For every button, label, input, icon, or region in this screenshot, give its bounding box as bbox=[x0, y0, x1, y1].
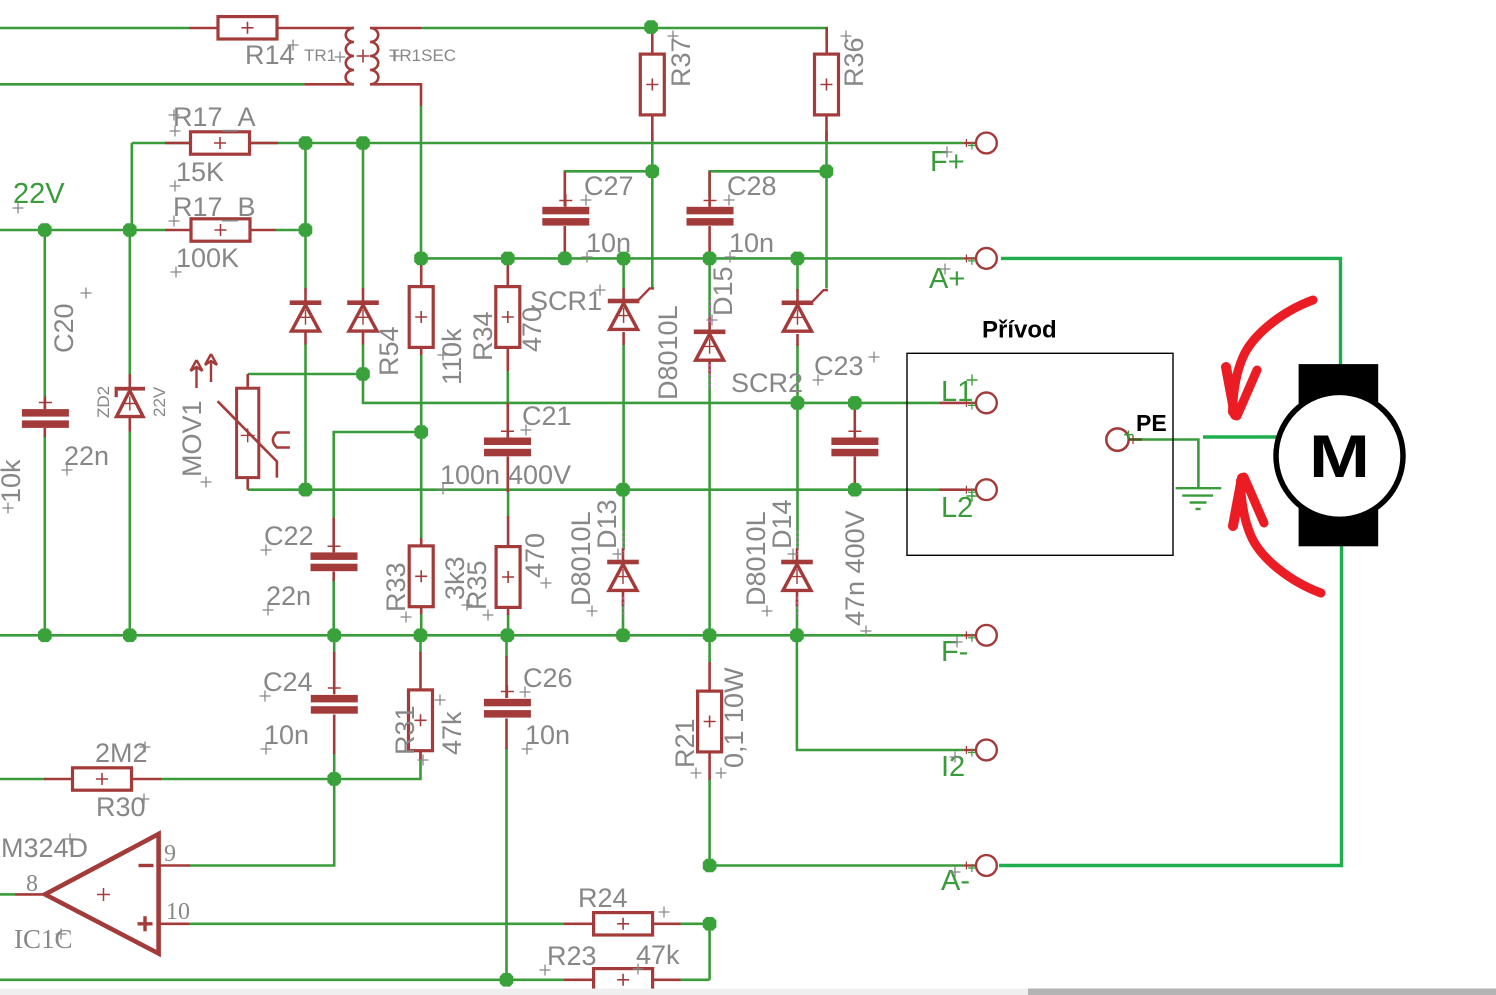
svg-text:470: 470 bbox=[517, 307, 547, 352]
pin F+ bbox=[962, 133, 996, 154]
svg-text:L1: L1 bbox=[941, 376, 973, 408]
resistor R34 bbox=[496, 287, 520, 348]
wire R30 left bbox=[0, 778, 45, 781]
magenta artifact dashes D15 bbox=[709, 300, 711, 390]
transformer TR1 center cross bbox=[357, 50, 370, 63]
wire opamp pin10 link bbox=[189, 922, 566, 925]
wire SCR2 anode stub bbox=[796, 258, 799, 290]
wire C24 top stub bbox=[333, 635, 336, 653]
wire I2 link bbox=[797, 635, 964, 750]
wire A- net horizontal bbox=[710, 864, 964, 867]
svg-text:10n: 10n bbox=[586, 228, 631, 258]
capacitor C24 bbox=[311, 695, 358, 714]
node A+ C27 bbox=[558, 252, 572, 266]
svg-text:R17_A: R17_A bbox=[173, 102, 256, 132]
wire R35 top lead bbox=[507, 490, 510, 517]
pin F- bbox=[962, 625, 996, 646]
resistor R31 bbox=[409, 690, 433, 751]
wire D7 column lower bbox=[304, 344, 307, 490]
thyristor SCR1 bbox=[608, 288, 654, 329]
node L1 SCR2 bbox=[791, 396, 805, 410]
wire R17B right lead bbox=[251, 229, 276, 232]
wire C20 column lower bbox=[43, 436, 46, 635]
wire R37 top lead bbox=[651, 27, 654, 54]
wire R34 to C21 bbox=[506, 370, 509, 403]
svg-text:R23: R23 bbox=[547, 941, 597, 971]
motor M circle bbox=[1276, 392, 1403, 519]
wire SCR2 cathode link bbox=[796, 345, 799, 403]
wire C24 bottom lead bbox=[333, 753, 336, 779]
svg-text:10n: 10n bbox=[264, 720, 309, 750]
svg-text:D15: D15 bbox=[708, 266, 738, 316]
wire SCR1 anode lead bbox=[622, 288, 625, 299]
wire TR1SEC top lead bbox=[370, 27, 422, 30]
svg-text:10n: 10n bbox=[525, 720, 570, 750]
svg-text:10k: 10k bbox=[0, 459, 26, 503]
wire D8 leads bbox=[362, 288, 365, 345]
svg-text:R33: R33 bbox=[381, 562, 411, 612]
resistor R24 bbox=[594, 913, 653, 935]
node L2 D7 bbox=[299, 483, 313, 497]
wire R33 top lead bbox=[420, 432, 423, 539]
node F- I2 bbox=[790, 629, 804, 643]
node R24 R21 bbox=[703, 917, 717, 931]
wire TR1SEC top to R36 bbox=[422, 28, 827, 42]
wire D8 column upper bbox=[362, 143, 365, 289]
wire R17B right to D7 bbox=[276, 229, 306, 232]
varistor MOV1 arrows bbox=[191, 354, 218, 388]
capacitor C23 bbox=[831, 438, 878, 457]
node F- R21 bbox=[703, 629, 717, 643]
node F- ZD2 bbox=[123, 629, 137, 643]
node 22V C20 bbox=[38, 223, 52, 237]
wire R36 top lead bbox=[825, 27, 828, 54]
wire SCR1 anode stub bbox=[622, 258, 625, 289]
svg-text:100K: 100K bbox=[176, 243, 239, 273]
wire R33 bottom lead bbox=[420, 613, 423, 635]
wire SCR1 cathode lead bbox=[622, 332, 625, 345]
wire R36 lead lower bbox=[825, 131, 828, 171]
wire R17A right lead bbox=[249, 142, 278, 145]
wire D8 column lower bbox=[362, 344, 365, 374]
wire R30 right to R31 bbox=[160, 750, 421, 779]
capacitor C21 bbox=[484, 438, 531, 457]
pin I2 bbox=[962, 740, 996, 761]
wire D15 leads bbox=[708, 318, 711, 374]
diode D7 bbox=[290, 300, 322, 331]
wire C20 column upper bbox=[43, 230, 46, 399]
svg-text:10: 10 bbox=[166, 899, 190, 925]
pin A- bbox=[962, 855, 996, 876]
wire L2 net horizontal bbox=[248, 488, 940, 491]
resistor R14 bbox=[218, 17, 277, 39]
wire TR1SEC bottom lead bbox=[370, 84, 421, 106]
node A+ TR1SEC bbox=[414, 252, 428, 266]
node F- D13 bbox=[616, 629, 630, 643]
wire R17A left lead bbox=[165, 142, 191, 145]
svg-text:TR1: TR1 bbox=[304, 46, 336, 65]
wire C26 bottom column bbox=[505, 748, 508, 980]
wire A+ net horizontal bbox=[421, 257, 964, 260]
node F- C24 bbox=[327, 629, 341, 643]
svg-text:C23: C23 bbox=[814, 351, 864, 381]
wire R21 top lead bbox=[708, 635, 711, 663]
resistor R30 bbox=[73, 768, 132, 790]
svg-text:47k: 47k bbox=[437, 711, 467, 755]
svg-text:R34: R34 bbox=[468, 311, 498, 361]
svg-text:10n: 10n bbox=[729, 228, 774, 258]
wire C27 top link bbox=[565, 171, 653, 196]
node A+ R34 bbox=[501, 252, 515, 266]
wire opamp pin9 lead bbox=[159, 864, 190, 867]
node 22V D7 bbox=[299, 223, 313, 237]
node A+ C28 bbox=[703, 252, 717, 266]
wire R54 lower lead bbox=[420, 354, 423, 432]
resistor R33 bbox=[409, 546, 433, 607]
wire F- net horizontal bbox=[0, 634, 964, 637]
svg-text:0,1 10W: 0,1 10W bbox=[719, 667, 749, 768]
wire R36 bottom lead bbox=[825, 115, 828, 141]
connector box Privod bbox=[907, 353, 1173, 555]
wire opamp pin8 left bbox=[0, 893, 16, 896]
wire C26 top stub bbox=[505, 635, 508, 657]
node C26 rail bbox=[500, 973, 514, 987]
wire D13 leads bbox=[622, 548, 625, 606]
capacitor C22 bbox=[311, 552, 358, 571]
node A+ SCR1 bbox=[617, 252, 631, 266]
wire D14 column bbox=[796, 403, 799, 550]
svg-text:L2: L2 bbox=[941, 492, 973, 524]
wire D7 column upper bbox=[304, 143, 307, 289]
wire C22 bottom lead bbox=[332, 580, 335, 635]
wire D7 leads bbox=[304, 288, 307, 345]
resistor R23 bbox=[594, 969, 653, 991]
wire R34 top lead bbox=[506, 258, 509, 288]
wire bottom rail bbox=[0, 978, 565, 981]
wire C23 top lead bbox=[853, 403, 856, 438]
svg-text:I2: I2 bbox=[941, 751, 965, 783]
capacitor C20 bbox=[22, 409, 69, 428]
svg-text:2M2: 2M2 bbox=[95, 738, 148, 768]
wire R31 top stub bbox=[419, 635, 422, 653]
node R30 C24 bbox=[327, 772, 341, 786]
wire F+ net horizontal bbox=[132, 142, 964, 145]
wire ZD2 column lower bbox=[129, 431, 132, 635]
node L2 origin cross bbox=[967, 491, 978, 502]
resistor R35 bbox=[496, 547, 520, 608]
node C27 gate bbox=[646, 165, 660, 179]
wire TR1SEC bottom vertical bbox=[420, 106, 423, 258]
pin PE bbox=[1106, 428, 1137, 450]
wire C22 top link bbox=[334, 432, 422, 519]
svg-text:R17_B: R17_B bbox=[173, 192, 256, 222]
node 22V ZD2 bbox=[123, 223, 137, 237]
svg-text:MOV1: MOV1 bbox=[177, 400, 207, 477]
svg-text:110k: 110k bbox=[437, 328, 467, 385]
wire R24 leads bbox=[564, 922, 681, 925]
wire D15 column lower bbox=[708, 372, 711, 635]
svg-text:47n 400V: 47n 400V bbox=[840, 510, 870, 626]
node F- R31 bbox=[414, 629, 428, 643]
wire PE to motor (hand drawn) bbox=[1203, 435, 1281, 438]
wire R35 bottom lead bbox=[507, 606, 510, 615]
wire SCR2 gate vertical bbox=[825, 171, 828, 288]
ground PE earth bar2 bbox=[1182, 494, 1213, 496]
thyristor SCR2 bbox=[782, 290, 828, 331]
node D8 F+ bbox=[356, 136, 370, 150]
wire PE dark stub bbox=[1129, 438, 1143, 441]
svg-text:C21: C21 bbox=[522, 401, 572, 431]
wire opamp pin10 lead bbox=[159, 922, 189, 925]
svg-text:22V: 22V bbox=[13, 178, 65, 210]
wire R34 bottom lead bbox=[506, 346, 509, 371]
motor M body bbox=[1299, 364, 1379, 546]
wire C28 top link bbox=[710, 171, 827, 196]
wire R54 top lead bbox=[420, 258, 423, 288]
capacitor C23 pin cross bbox=[848, 425, 861, 438]
svg-text:8: 8 bbox=[26, 871, 38, 897]
svg-text:22n: 22n bbox=[266, 581, 311, 611]
wire ZD2 column upper bbox=[129, 230, 132, 375]
node L1 C23 bbox=[848, 396, 862, 410]
wire R30 leads bbox=[44, 778, 161, 781]
capacitor C20 pin cross bbox=[39, 396, 52, 409]
red arrow upper (hand drawn) bbox=[1226, 300, 1313, 416]
wire R21 bottom to A- bbox=[708, 779, 711, 866]
resistor R21 bbox=[698, 691, 722, 752]
pin A+ bbox=[962, 248, 996, 269]
svg-text:R21: R21 bbox=[670, 718, 700, 768]
magenta artifact dashes D13 bbox=[623, 531, 625, 618]
varistor MOV1 U mark bbox=[273, 433, 290, 448]
svg-text:IC1C: IC1C bbox=[14, 924, 73, 954]
diode D13 bbox=[607, 560, 639, 591]
svg-text:A+: A+ bbox=[929, 263, 965, 295]
wire C20 leads bbox=[43, 398, 46, 437]
svg-text:SCR2: SCR2 bbox=[731, 368, 803, 398]
wire C26 leads bbox=[505, 656, 508, 749]
transformer TR1 primary coil bbox=[346, 28, 354, 84]
wire R35 bottom lead bbox=[507, 614, 510, 635]
node F- C26 bbox=[501, 629, 515, 643]
svg-text:D13: D13 bbox=[592, 499, 622, 549]
pin L2 bbox=[962, 479, 996, 500]
svg-text:C27: C27 bbox=[584, 171, 634, 201]
wire D14 leads bbox=[796, 548, 799, 606]
wire PE lead bbox=[1131, 440, 1198, 489]
resistor R37 bbox=[640, 54, 664, 115]
node L2 D13 bbox=[616, 483, 630, 497]
wire R14 right lead to TR1 bbox=[277, 27, 354, 30]
node A+ SCR2 bbox=[791, 252, 805, 266]
wire MOV1 bottom lead bbox=[246, 477, 249, 490]
svg-text:ZD2: ZD2 bbox=[94, 386, 113, 418]
wire SCR2 cathode lead bbox=[796, 334, 799, 346]
capacitor C21 pin cross bbox=[501, 425, 514, 438]
svg-text:15K: 15K bbox=[176, 157, 224, 187]
wire R54 bottom lead bbox=[420, 346, 423, 355]
wire SCR1 cathode column bbox=[622, 345, 625, 550]
wire R31 leads bbox=[419, 652, 422, 760]
varistor MOV1 bbox=[218, 388, 277, 477]
magenta artifact dashes D14 bbox=[797, 531, 799, 618]
svg-text:LM324D: LM324D bbox=[0, 833, 88, 863]
transformer TR1SEC secondary coil bbox=[370, 28, 378, 84]
wire TR1 primary bottom lead bbox=[304, 83, 354, 86]
wire D14 lower lead bbox=[796, 600, 799, 635]
wire SCR2 anode lead bbox=[796, 289, 799, 301]
node R37 top bbox=[644, 20, 658, 34]
wire D15 column upper bbox=[708, 258, 711, 318]
node L2 C23 bbox=[848, 483, 862, 497]
wire L1 net horizontal bbox=[363, 374, 940, 403]
scrollbar thumb bbox=[1028, 989, 1496, 995]
origin crosses gray bbox=[3, 31, 963, 976]
wire R37 bottom lead bbox=[651, 115, 654, 141]
svg-text:D8010L: D8010L bbox=[653, 305, 683, 400]
svg-text:D14: D14 bbox=[767, 499, 797, 549]
wire motor to A- (hand drawn) bbox=[999, 545, 1342, 866]
wire R21 leads bbox=[708, 662, 711, 780]
node C22 R54 bbox=[414, 425, 428, 439]
wire SCR1 gate vertical bbox=[651, 171, 654, 288]
ground PE earth bar3 bbox=[1190, 501, 1207, 503]
svg-text:22V: 22V bbox=[150, 386, 169, 417]
svg-text:C24: C24 bbox=[263, 667, 313, 697]
zener diode ZD2 bbox=[115, 387, 145, 417]
wire R23 leads bbox=[564, 978, 681, 981]
pin L1 bbox=[962, 393, 996, 414]
diode D15 bbox=[694, 330, 726, 361]
wire L1 pin stub bbox=[940, 402, 966, 405]
ground PE earth bar4 bbox=[1196, 508, 1201, 510]
scrollbar track bbox=[0, 989, 1496, 995]
svg-text:R54: R54 bbox=[374, 326, 404, 376]
svg-text:R37: R37 bbox=[666, 37, 696, 87]
wire opamp pin9 link bbox=[190, 779, 335, 866]
wire D13 lower lead bbox=[622, 600, 625, 635]
capacitor C22 pin cross bbox=[328, 540, 341, 553]
svg-text:M: M bbox=[1309, 423, 1370, 490]
capacitor C28 bbox=[687, 207, 734, 226]
svg-text:400V: 400V bbox=[508, 460, 571, 490]
svg-text:F-: F- bbox=[941, 636, 968, 668]
wire C22 leads bbox=[332, 518, 335, 582]
diode D8 bbox=[347, 300, 379, 331]
wire top net to R14 bbox=[0, 27, 189, 30]
svg-text:C22: C22 bbox=[264, 521, 314, 551]
svg-text:R30: R30 bbox=[96, 792, 146, 822]
resistor R54 bbox=[409, 287, 433, 348]
capacitor C26 bbox=[484, 699, 531, 718]
svg-text:22n: 22n bbox=[64, 441, 109, 471]
wire L2 pin stub bbox=[940, 488, 966, 491]
capacitor C28 pin cross bbox=[704, 194, 717, 207]
svg-text:R24: R24 bbox=[578, 883, 628, 913]
svg-text:C28: C28 bbox=[727, 171, 777, 201]
wire MOV1 top link bbox=[248, 373, 363, 376]
capacitor C24 pin cross bbox=[328, 682, 341, 695]
capacitor C26 pin cross bbox=[501, 685, 514, 698]
wire R14 left lead bbox=[189, 27, 218, 30]
wire C24 leads bbox=[333, 652, 336, 754]
wire R17B left lead bbox=[165, 229, 190, 232]
svg-text:R14: R14 bbox=[245, 40, 295, 70]
wire MOV1 top lead bbox=[246, 374, 249, 389]
wire C23 bottom lead bbox=[853, 457, 856, 490]
wire C28 leads bbox=[708, 172, 711, 259]
wire R24 right link bbox=[680, 924, 710, 980]
wire R33 leads bbox=[420, 538, 423, 614]
ground PE earth bar1 bbox=[1176, 487, 1222, 489]
node D7 F+ bbox=[299, 136, 313, 150]
node F- C20 bbox=[38, 629, 52, 643]
svg-text:C20: C20 bbox=[49, 303, 79, 353]
node C28 gate bbox=[820, 165, 834, 179]
wire A+ to motor (hand drawn) bbox=[1001, 258, 1341, 365]
svg-text:47k: 47k bbox=[636, 940, 680, 970]
svg-text:R31: R31 bbox=[390, 705, 420, 755]
node R21 A- bbox=[703, 859, 717, 873]
wire R23 right link bbox=[680, 978, 710, 981]
svg-text:R36: R36 bbox=[839, 37, 869, 87]
svg-text:C26: C26 bbox=[523, 663, 573, 693]
resistor R17_A bbox=[191, 132, 250, 154]
wire opamp pin8 lead bbox=[16, 893, 47, 896]
wire 22V rail bbox=[0, 229, 165, 232]
capacitor C27 pin cross bbox=[559, 194, 572, 207]
svg-text:9: 9 bbox=[164, 841, 176, 867]
wire ZD2 leads bbox=[129, 374, 132, 432]
svg-text:100n: 100n bbox=[440, 460, 500, 490]
wire R37 lead lower bbox=[651, 131, 654, 171]
wire C21 top lead bbox=[506, 403, 509, 438]
resistor R17_B bbox=[191, 219, 250, 241]
svg-text:Přívod: Přívod bbox=[982, 317, 1057, 344]
op-amp IC1C bbox=[45, 834, 159, 954]
resistor R36 bbox=[815, 54, 839, 115]
capacitor C27 bbox=[542, 207, 589, 226]
node MOV D8 bbox=[356, 367, 370, 381]
red arrow lower (hand drawn) bbox=[1233, 477, 1321, 593]
node L1 origin cross bbox=[967, 375, 978, 386]
diode D14 bbox=[781, 560, 813, 591]
wire C21 bottom lead bbox=[506, 457, 509, 493]
svg-text:PE: PE bbox=[1136, 410, 1167, 436]
wire R17A left drop bbox=[131, 143, 134, 230]
wire C27 leads bbox=[563, 172, 566, 259]
wire R35 upper lead bbox=[507, 516, 510, 548]
svg-text:470: 470 bbox=[520, 533, 550, 578]
wire primary bottom net bbox=[0, 83, 304, 86]
